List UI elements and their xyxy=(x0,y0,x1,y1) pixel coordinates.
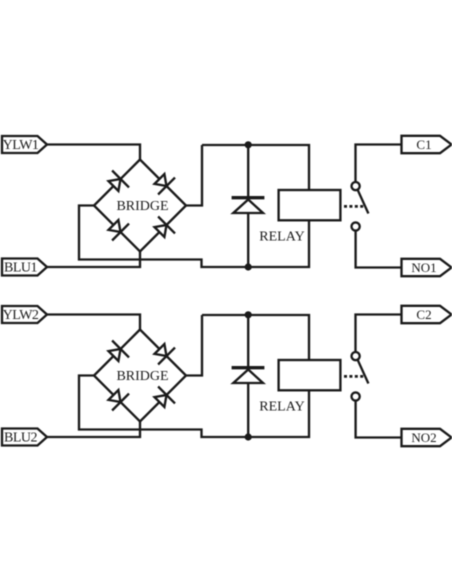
svg-text:NO1: NO1 xyxy=(411,260,436,275)
svg-text:YLW1: YLW1 xyxy=(3,138,39,153)
svg-text:C2: C2 xyxy=(416,307,431,322)
svg-text:YLW2: YLW2 xyxy=(3,308,39,323)
svg-text:NO2: NO2 xyxy=(411,430,436,445)
svg-text:BRIDGE: BRIDGE xyxy=(116,199,168,214)
svg-text:C1: C1 xyxy=(416,137,431,152)
svg-text:BRIDGE: BRIDGE xyxy=(116,369,168,384)
svg-text:RELAY: RELAY xyxy=(259,400,304,415)
svg-text:RELAY: RELAY xyxy=(259,230,304,245)
svg-text:BLU1: BLU1 xyxy=(4,261,38,276)
svg-text:BLU2: BLU2 xyxy=(4,431,38,446)
